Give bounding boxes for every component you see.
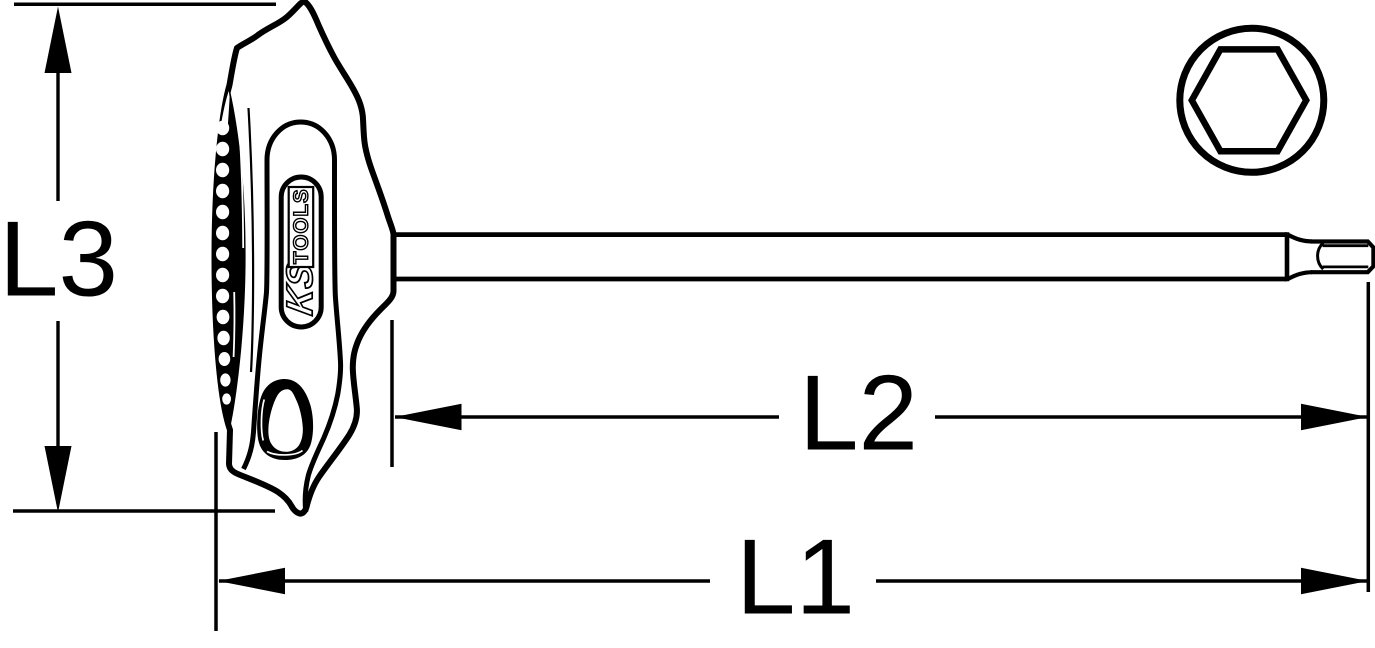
hex tip facet line lower: [1323, 265, 1369, 268]
tip flare bottom: [1289, 272, 1313, 279]
extension line L2 left: [390, 320, 394, 467]
arrow L3 up: [45, 7, 72, 74]
cross-section circle: [1180, 28, 1324, 172]
logo capsule: [281, 177, 321, 327]
arrow L2 right: [1301, 404, 1368, 430]
logo text KS TOOLS (rotated): [286, 187, 313, 316]
handle outline: [215, 1, 394, 513]
arrow L2 left: [395, 404, 462, 430]
shaft end cap: [1285, 232, 1290, 281]
hex tip outline: [1311, 242, 1373, 273]
dimension L1 line: [219, 579, 710, 582]
teardrop highlight bottom: [267, 451, 303, 455]
dimension L2 line: [395, 415, 779, 418]
shaft bottom line: [393, 277, 1287, 282]
svg-text:L1: L1: [736, 517, 855, 637]
teardrop inner hole: [268, 389, 302, 452]
inner grip panel: [244, 122, 341, 512]
cross-section hexagon: [1192, 49, 1306, 151]
arrow L3 down: [45, 446, 72, 513]
arrow L1 right: [1301, 568, 1368, 594]
hex tip transition arc: [1318, 243, 1324, 269]
extension line L1 left: [214, 432, 218, 631]
thin line right of lens: [249, 108, 254, 372]
extension line right: [1367, 282, 1371, 592]
svg-text:L2: L2: [799, 353, 918, 473]
lens top white wedge: [221, 91, 230, 127]
arrow L1 left: [218, 568, 285, 594]
grip end lens: [213, 88, 245, 430]
lens right inner highlight lower: [233, 292, 236, 357]
teardrop highlight left: [261, 400, 264, 441]
extension line top (handle top): [14, 2, 276, 6]
lens right inner highlight upper: [240, 130, 244, 248]
lens grip dots: [216, 121, 231, 405]
hanging hole (teardrop): [257, 379, 313, 460]
tip flare top: [1289, 235, 1313, 242]
hex tip facet line upper: [1323, 244, 1369, 247]
dimension L3 line: [56, 71, 59, 201]
shaft top line: [393, 232, 1287, 237]
svg-text:L3: L3: [0, 199, 118, 319]
extension line bottom (handle bottom): [13, 509, 275, 513]
